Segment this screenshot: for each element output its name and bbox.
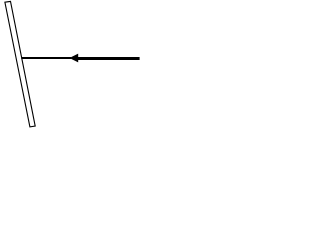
inclined rod bbox=[5, 1, 35, 127]
arrowhead bbox=[69, 54, 78, 63]
wire (thin shaft from rod to arrowhead) bbox=[21, 57, 71, 59]
thick shaft line bbox=[78, 57, 140, 60]
